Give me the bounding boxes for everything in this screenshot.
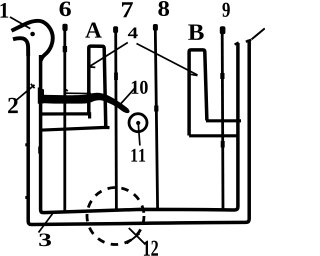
label 11 xyxy=(131,149,145,162)
band thin top line xyxy=(65,92,91,94)
leader 5 (top right, cut off) xyxy=(252,28,265,39)
label 4 xyxy=(128,28,138,39)
electrode 6 terminal blob xyxy=(62,24,67,31)
spout inner curve (lower lip) xyxy=(13,38,28,56)
electrode 7 thick mark xyxy=(114,73,118,81)
label 8 xyxy=(158,1,169,16)
electrode 7 terminal blob xyxy=(113,26,118,33)
leader 4 to B end tick xyxy=(191,74,198,75)
inner wall small bump xyxy=(38,147,40,154)
leader 10 xyxy=(121,89,135,104)
hood B right shelf line xyxy=(206,119,241,122)
dashed circle 12 xyxy=(87,188,144,245)
leader 4 to A xyxy=(90,43,128,67)
electrode 6 thick mark xyxy=(63,46,67,52)
electrode 9 terminal blob xyxy=(220,26,226,34)
label 3 xyxy=(39,234,51,247)
inner right wall top tick xyxy=(235,42,239,44)
outer vessel wall left+bottom+right xyxy=(28,40,249,225)
float circle 11 xyxy=(129,114,147,132)
leader 12 xyxy=(129,228,146,245)
electrode 6 side tick xyxy=(66,89,67,91)
float center dot xyxy=(136,121,140,125)
label B xyxy=(188,25,204,40)
electrode 8 thick mark xyxy=(154,106,158,112)
inner vessel wall left+bottom+right xyxy=(41,43,238,213)
electrode 8 xyxy=(155,29,157,210)
label 12 xyxy=(144,241,158,256)
diaphragm band root blob xyxy=(38,87,44,104)
outer wall small tick upper xyxy=(25,143,27,146)
leader 1 xyxy=(10,17,30,29)
leader 3 xyxy=(39,214,53,233)
electrode 8 terminal blob xyxy=(153,24,158,31)
hood A right shelf line xyxy=(40,127,110,130)
leader 4 to A end tick xyxy=(89,66,95,69)
outer wall top serif xyxy=(246,40,251,42)
label 7 xyxy=(122,2,133,17)
leader 4 to B xyxy=(137,44,198,76)
electrode 9 lower thick mark xyxy=(221,141,225,148)
diaphragm band 10 xyxy=(42,93,130,113)
gas hood tube B xyxy=(189,50,207,136)
label 10 xyxy=(132,81,148,94)
outer wall small tick lower xyxy=(25,196,27,199)
label 1 xyxy=(1,3,9,18)
label 6 xyxy=(60,2,71,17)
electrode 7 xyxy=(114,31,118,210)
hood A left shelf line xyxy=(40,114,90,119)
leader 2 xyxy=(17,85,35,100)
gas hood tube A xyxy=(89,46,106,128)
leader 12 cross dash xyxy=(127,234,140,244)
electrode 9 xyxy=(221,33,225,209)
leader 11 xyxy=(138,125,140,146)
hood B left shelf line xyxy=(189,134,238,137)
label 2 xyxy=(8,98,18,113)
label 9 xyxy=(222,3,229,17)
label A xyxy=(85,23,101,38)
electrode 9 thick mark xyxy=(220,73,224,79)
leader 2 end tick xyxy=(31,84,35,88)
spout outer curve (hook) xyxy=(12,21,53,61)
spout dot xyxy=(30,32,35,37)
electrode 6 xyxy=(63,30,66,211)
